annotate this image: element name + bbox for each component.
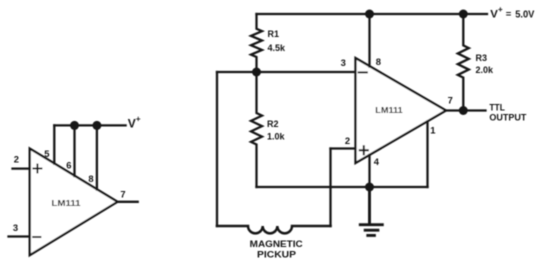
svg-text:4.5k: 4.5k	[268, 43, 287, 53]
svg-text:OUTPUT: OUTPUT	[489, 113, 526, 124]
svg-text:1: 1	[430, 124, 435, 135]
resistor R1	[251, 14, 262, 72]
op-amp U1 LM111 (comparator triangle)	[30, 149, 118, 256]
wire bottom net (R2 to pin 4 to pin 1)	[257, 186, 428, 188]
junction dot (pin 8 / V+ bus)	[92, 121, 101, 130]
wire pin 8	[368, 14, 370, 67]
junction dot (pin 6 / V+ bus)	[70, 121, 79, 130]
junction dot (R3 / V+ rail)	[459, 10, 468, 19]
svg-text:R3: R3	[476, 53, 488, 63]
resistor R3	[458, 14, 469, 111]
op-amp U2 LM111 (comparator triangle)	[356, 58, 447, 163]
wire pin 3 input (left symbol)	[9, 235, 30, 237]
wire pin 7 output	[446, 109, 486, 111]
ground	[360, 187, 382, 235]
svg-text:1.0k: 1.0k	[267, 132, 286, 142]
wire pin 6	[73, 125, 75, 176]
junction dot (pin 8 / V+ rail)	[365, 10, 374, 19]
svg-text:3: 3	[13, 222, 18, 233]
svg-text:2: 2	[345, 135, 350, 146]
wire pickup right leg	[329, 149, 331, 227]
inductor L1 magnetic pickup	[217, 226, 331, 233]
svg-text:PICKUP: PICKUP	[257, 250, 297, 261]
resistor R2	[251, 72, 262, 187]
wire left branch (pickup left leg)	[216, 72, 218, 226]
svg-text:V: V	[128, 116, 136, 130]
minus sign (U2 inverting input marker)	[359, 71, 367, 73]
svg-text:5.0V: 5.0V	[515, 9, 534, 21]
wire pin 4	[368, 155, 370, 187]
wire pin 8	[96, 125, 98, 189]
wire pin 2 input	[331, 147, 356, 149]
junction dot (R1/R2/pin3 node)	[252, 68, 261, 77]
junction dot (pin 4 / ground node)	[365, 183, 374, 192]
plus sign (U1 non-inverting input marker)	[33, 164, 41, 172]
svg-text:+: +	[136, 115, 141, 124]
svg-text:LM111: LM111	[52, 199, 82, 208]
wire pin 7 output (left symbol)	[118, 201, 138, 203]
svg-text:R1: R1	[268, 29, 280, 39]
svg-text:8: 8	[88, 173, 93, 184]
svg-text:6: 6	[66, 160, 71, 171]
svg-text:5: 5	[44, 148, 49, 159]
svg-text:+: +	[498, 5, 503, 14]
svg-text:MAGNETIC: MAGNETIC	[250, 239, 303, 250]
plus sign (U2 non-inverting input marker)	[360, 146, 368, 154]
svg-text:2: 2	[14, 154, 19, 165]
svg-text:7: 7	[448, 95, 453, 106]
wire V+ rail	[257, 13, 488, 15]
wire pin 1	[426, 122, 428, 188]
minus sign (U1 inverting input marker)	[33, 236, 40, 238]
wire pin 2 input (left symbol)	[13, 167, 30, 169]
wire pin 5	[53, 125, 55, 163]
svg-text:3: 3	[341, 57, 346, 68]
svg-text:4: 4	[374, 156, 380, 167]
wire pin 3 net (node to inverting input)	[217, 71, 356, 73]
svg-text:2.0k: 2.0k	[476, 65, 495, 75]
svg-text:=: =	[506, 9, 512, 20]
svg-text:R2: R2	[267, 119, 279, 129]
wire V+ bus (left symbol)	[54, 124, 125, 126]
svg-text:8: 8	[376, 56, 381, 67]
svg-text:7: 7	[120, 189, 125, 200]
junction dot (output / R3 node)	[459, 106, 468, 115]
svg-text:LM111: LM111	[375, 106, 403, 115]
